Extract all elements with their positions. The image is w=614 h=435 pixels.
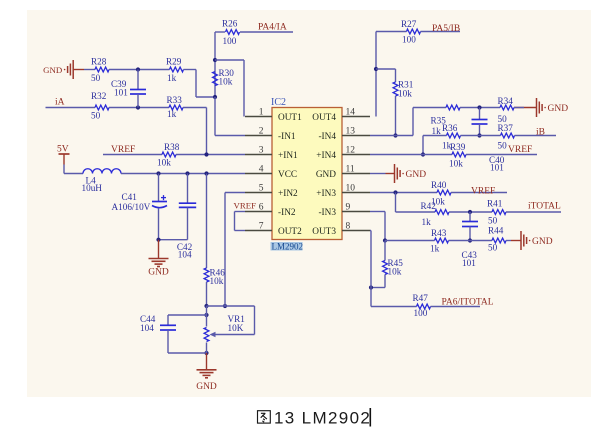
svg-text:5V: 5V	[57, 145, 69, 155]
svg-text:VCC: VCC	[278, 170, 297, 180]
svg-text:VREF: VREF	[471, 187, 495, 197]
svg-text:50: 50	[498, 141, 508, 151]
svg-text:R42: R42	[421, 201, 437, 211]
svg-text:-IN1: -IN1	[278, 132, 296, 142]
svg-text:R32: R32	[91, 91, 107, 101]
svg-text:OUT3: OUT3	[312, 227, 336, 237]
svg-text:PA6/ITOTAL: PA6/ITOTAL	[442, 298, 494, 308]
svg-text:+IN4: +IN4	[316, 151, 336, 161]
svg-text:10k: 10k	[388, 267, 402, 277]
svg-text:R47: R47	[413, 293, 429, 303]
svg-text:R26: R26	[222, 19, 238, 29]
svg-text:50: 50	[488, 243, 498, 253]
svg-text:iB: iB	[536, 128, 545, 138]
svg-text:PA5/IB: PA5/IB	[432, 24, 460, 34]
svg-text:10uH: 10uH	[82, 183, 103, 193]
svg-text:5: 5	[259, 184, 264, 194]
svg-text:1k: 1k	[422, 217, 432, 227]
svg-text:11: 11	[346, 165, 355, 175]
svg-text:GND: GND	[406, 170, 427, 180]
svg-text:50: 50	[91, 73, 101, 83]
svg-text:IC2: IC2	[271, 97, 286, 108]
svg-text:OUT4: OUT4	[312, 113, 336, 123]
svg-text:10k: 10k	[449, 159, 463, 169]
svg-text:-IN4: -IN4	[318, 132, 336, 142]
svg-text:C41: C41	[122, 192, 138, 202]
svg-text:50: 50	[91, 111, 101, 121]
svg-text:VREF: VREF	[508, 145, 532, 155]
svg-text:101: 101	[114, 88, 128, 98]
svg-text:GND: GND	[196, 382, 217, 392]
svg-text:R40: R40	[431, 180, 447, 190]
svg-text:GND: GND	[43, 65, 62, 75]
svg-text:OUT2: OUT2	[278, 227, 302, 237]
svg-text:GND: GND	[148, 268, 169, 278]
svg-text:12: 12	[346, 146, 356, 156]
svg-text:104: 104	[140, 323, 154, 333]
svg-text:2: 2	[259, 127, 264, 137]
svg-text:GND: GND	[548, 104, 569, 114]
svg-text:+IN2: +IN2	[278, 189, 298, 199]
svg-text:iA: iA	[55, 98, 65, 108]
svg-text:1k: 1k	[167, 73, 177, 83]
svg-text:100: 100	[414, 308, 428, 318]
svg-text:R29: R29	[166, 57, 182, 67]
svg-text:+IN3: +IN3	[316, 189, 336, 199]
svg-text:10k: 10k	[210, 276, 224, 286]
svg-text:10K: 10K	[228, 323, 244, 333]
svg-text:10: 10	[346, 184, 356, 194]
svg-text:101: 101	[462, 258, 476, 268]
svg-text:R43: R43	[431, 228, 447, 238]
svg-text:101: 101	[490, 163, 504, 173]
svg-text:100: 100	[223, 36, 237, 46]
svg-text:OUT1: OUT1	[278, 113, 302, 123]
svg-text:R28: R28	[91, 57, 107, 67]
svg-text:R33: R33	[167, 95, 183, 105]
svg-text:3: 3	[259, 146, 264, 156]
svg-text:iTOTAL: iTOTAL	[528, 202, 561, 212]
svg-text:GND: GND	[316, 170, 336, 180]
svg-text:1k: 1k	[432, 126, 442, 136]
svg-text:9: 9	[346, 203, 351, 213]
svg-text:10k: 10k	[398, 89, 412, 99]
svg-text:104: 104	[178, 250, 192, 260]
svg-text:+IN1: +IN1	[278, 151, 298, 161]
svg-text:6: 6	[259, 203, 264, 213]
svg-text:-IN3: -IN3	[318, 208, 336, 218]
svg-text:1k: 1k	[167, 109, 177, 119]
svg-text:R36: R36	[442, 123, 458, 133]
svg-text:R41: R41	[487, 199, 503, 209]
svg-text:VREF: VREF	[234, 201, 257, 211]
svg-text:100: 100	[402, 35, 416, 45]
svg-text:LM2902: LM2902	[272, 242, 304, 252]
svg-text:A106/10V: A106/10V	[112, 202, 151, 212]
svg-text:13: 13	[346, 127, 356, 137]
svg-text:R44: R44	[488, 226, 504, 236]
svg-text:7: 7	[259, 222, 264, 232]
svg-text:10k: 10k	[157, 158, 171, 168]
svg-text:R34: R34	[498, 96, 514, 106]
svg-text:50: 50	[488, 216, 498, 226]
svg-text:R37: R37	[498, 123, 514, 133]
svg-text:4: 4	[259, 165, 264, 175]
svg-text:GND: GND	[532, 237, 553, 247]
svg-text:10k: 10k	[219, 77, 233, 87]
svg-text:1: 1	[259, 108, 264, 118]
svg-text:PA4/IA: PA4/IA	[258, 23, 287, 33]
svg-text:-IN2: -IN2	[278, 208, 296, 218]
svg-text:1k: 1k	[430, 244, 440, 254]
svg-text:R39: R39	[450, 142, 466, 152]
svg-text:R38: R38	[164, 142, 180, 152]
svg-text:13 LM2902: 13 LM2902	[274, 409, 371, 428]
svg-text:R27: R27	[401, 19, 417, 29]
svg-text:VREF: VREF	[111, 145, 135, 155]
svg-text:14: 14	[346, 108, 356, 118]
svg-text:8: 8	[346, 222, 351, 232]
